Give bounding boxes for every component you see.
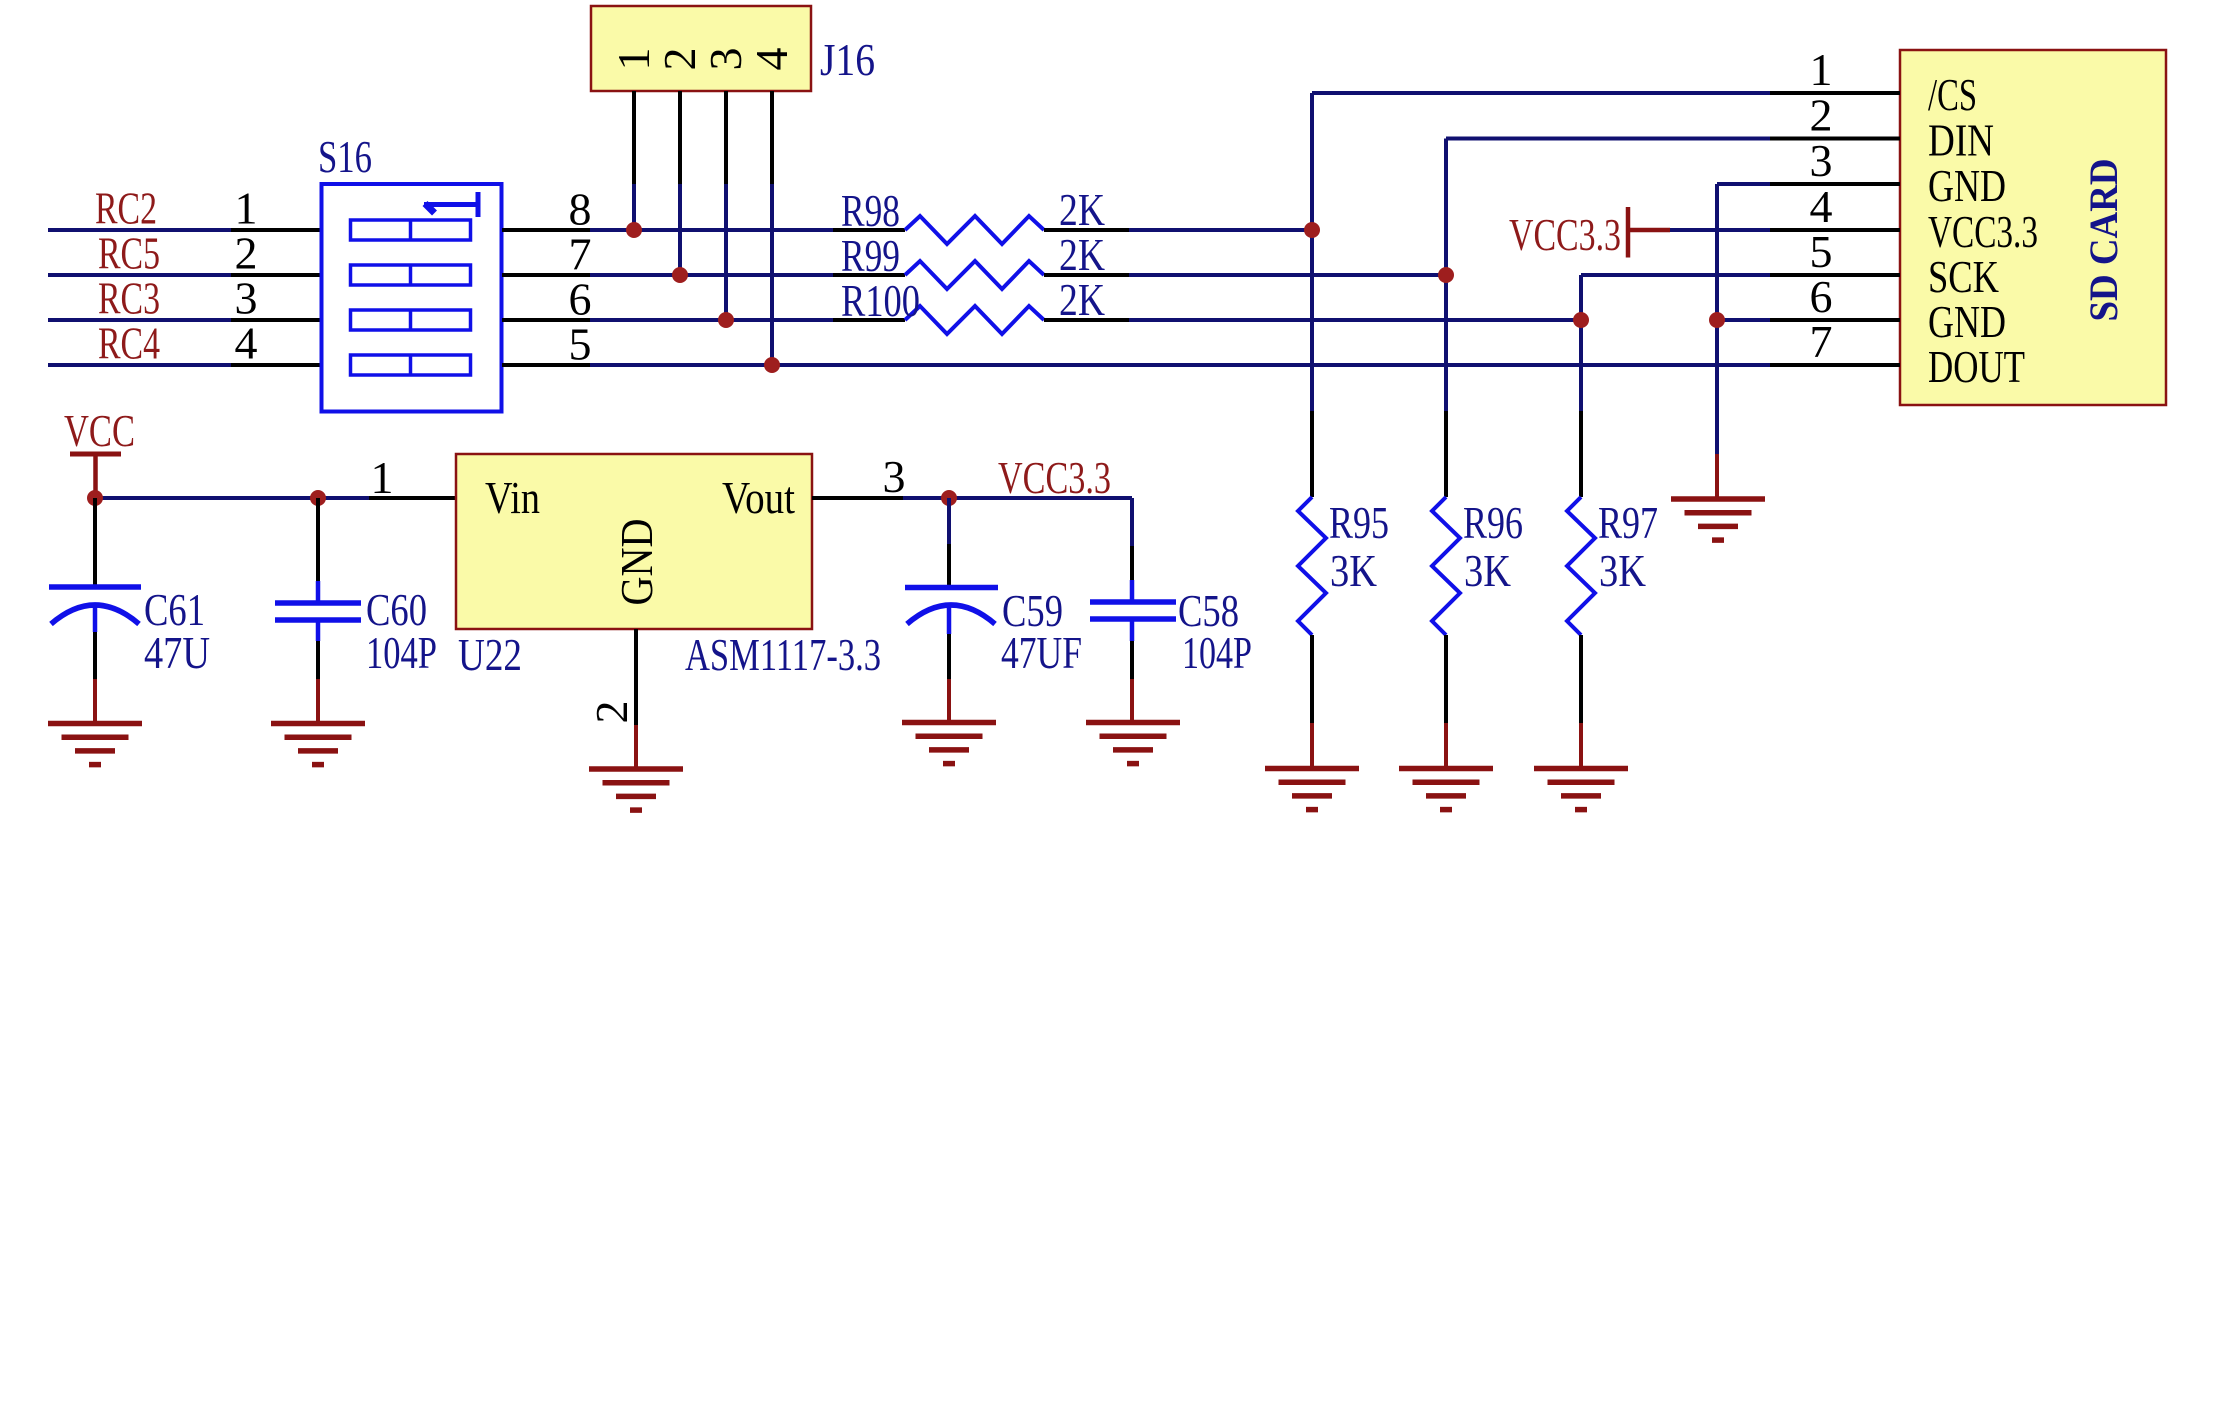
- J16 pin number 1: [608, 48, 659, 71]
- SD CARD pin 1 stub: [1770, 91, 1900, 95]
- resistor R99 zigzag: [905, 261, 1044, 289]
- ground symbol C61: [48, 724, 142, 765]
- S16 pin 3 stub: [231, 318, 321, 322]
- wire row4 DOUT: [590, 363, 833, 367]
- svg-text:SCK: SCK: [1928, 251, 1999, 302]
- resistor R100 designator: [841, 275, 920, 326]
- ground symbol SD card: [1671, 499, 1765, 540]
- S16 pin 7 stub: [502, 273, 590, 277]
- svg-text:R98: R98: [841, 185, 900, 236]
- U22 GND pin wire: [634, 629, 638, 725]
- svg-text:7: 7: [1810, 316, 1833, 367]
- S16 pin 2 stub: [231, 273, 321, 277]
- SD CARD pin name /CS: [1928, 69, 1977, 120]
- net label RC3: [98, 273, 160, 324]
- SD CARD pin name VCC3.3: [1928, 206, 2038, 257]
- svg-text:1: 1: [235, 183, 258, 234]
- svg-text:RC3: RC3: [98, 273, 160, 324]
- S16 pin 1 stub: [231, 228, 321, 232]
- svg-text:2: 2: [235, 228, 258, 279]
- resistor R96 ground wire: [1444, 723, 1448, 768]
- wire row1 S16 to R98: [590, 228, 833, 232]
- wire GND pin3 horizontal: [1717, 182, 1770, 186]
- junction J16 pin 2 to row 2: [672, 267, 688, 283]
- resistor R97 bottom lead: [1579, 635, 1583, 723]
- resistor R98 designator: [841, 185, 900, 236]
- svg-text:2: 2: [654, 48, 705, 71]
- junction /CS row1: [1304, 222, 1320, 238]
- wire net RC4 left segment: [48, 363, 231, 367]
- SD CARD pin number 3: [1810, 135, 1833, 186]
- SD CARD pin name SCK: [1928, 251, 1999, 302]
- S16 pin number 5: [569, 319, 592, 370]
- SD CARD pin number 2: [1810, 90, 1833, 141]
- J16 pin 1 wire navy: [632, 184, 636, 230]
- SD CARD pin number 4: [1810, 181, 1833, 232]
- wire VCC3.3 to pin4: [1670, 228, 1770, 232]
- svg-text:R100: R100: [841, 275, 920, 326]
- junction VCC C61: [87, 490, 103, 506]
- J16 pin 3 wire black: [724, 91, 728, 184]
- SD CARD body: [1900, 50, 2166, 405]
- svg-text:RC4: RC4: [98, 318, 160, 369]
- J16 designator: [820, 34, 875, 85]
- net label RC4: [98, 318, 160, 369]
- svg-text:GND: GND: [611, 519, 662, 606]
- ground symbol R95: [1265, 769, 1359, 810]
- svg-text:3: 3: [883, 451, 906, 502]
- ground wire under SD card: [1715, 454, 1719, 499]
- ground symbol R96: [1399, 769, 1493, 810]
- wire SCK horizontal: [1581, 273, 1770, 277]
- S16 pin 6 stub: [502, 318, 590, 322]
- svg-text:104P: 104P: [1182, 627, 1252, 678]
- svg-text:R96: R96: [1463, 497, 1523, 548]
- resistor R95 bottom lead: [1310, 635, 1314, 723]
- net label RC2: [95, 183, 157, 234]
- svg-text:2K: 2K: [1059, 229, 1105, 280]
- capacitor C60 ground wire: [316, 679, 320, 723]
- capacitor C60 designator: [366, 584, 427, 635]
- SD CARD pin number 5: [1810, 226, 1833, 277]
- wire row1 R98 to junction: [1129, 228, 1312, 232]
- resistor R97 top lead: [1579, 411, 1583, 497]
- resistor R100 left lead: [833, 318, 905, 322]
- svg-text:VCC3.3: VCC3.3: [998, 452, 1111, 503]
- S16 pin number 4: [235, 318, 258, 369]
- resistor R95 zigzag: [1298, 497, 1326, 635]
- S16 pin 8 stub: [502, 228, 590, 232]
- wire Vout rail: [903, 496, 1132, 500]
- capacitor C58: [1090, 546, 1176, 679]
- resistor R98 value 2K: [1059, 184, 1105, 235]
- SD CARD pin 3 stub: [1770, 182, 1900, 186]
- power VCC bar: [70, 454, 121, 498]
- svg-text:4: 4: [1810, 181, 1833, 232]
- wire SCK vertical: [1579, 275, 1583, 411]
- capacitor C58 value 104P: [1182, 627, 1252, 678]
- SD CARD pin name GND: [1928, 160, 2006, 211]
- wire net RC3 left segment: [48, 318, 231, 322]
- capacitor C59 ground wire: [947, 679, 951, 722]
- ground symbol C60: [271, 724, 365, 765]
- S16 pin number 3: [235, 273, 258, 324]
- U22 GND ground wire: [634, 725, 638, 769]
- svg-text:8: 8: [569, 184, 592, 235]
- SD CARD title: [2081, 159, 2126, 322]
- resistor R97 designator: [1598, 497, 1658, 548]
- svg-text:R99: R99: [841, 230, 900, 281]
- J16 pin 4 wire black: [770, 91, 774, 184]
- svg-text:GND: GND: [1928, 160, 2006, 211]
- J16 pin 3 wire navy: [724, 184, 728, 320]
- power VCC3.3 label bottom: [998, 452, 1111, 503]
- J16 pin number 2: [654, 48, 705, 71]
- capacitor C61 ground wire: [93, 679, 97, 723]
- resistor R96 bottom lead: [1444, 635, 1448, 723]
- svg-text:47UF: 47UF: [1001, 627, 1082, 678]
- U22 designator: [458, 629, 522, 680]
- svg-text:3: 3: [1810, 135, 1833, 186]
- svg-text:U22: U22: [458, 629, 522, 680]
- junction J16 pin 3 to row 3: [718, 312, 734, 328]
- resistor R98 zigzag: [905, 216, 1044, 244]
- svg-text:3: 3: [235, 273, 258, 324]
- svg-text:Vin: Vin: [485, 472, 540, 523]
- U22 pin number 3: [883, 451, 906, 502]
- SD CARD pin number 1: [1810, 44, 1833, 95]
- resistor R96 zigzag: [1432, 497, 1460, 635]
- S16 pin number 2: [235, 228, 258, 279]
- U22 pin 3 stub: [812, 496, 903, 500]
- capacitor C61 designator: [144, 584, 205, 635]
- svg-text:2K: 2K: [1059, 184, 1105, 235]
- wire C58 drop: [1130, 498, 1134, 546]
- svg-text:R97: R97: [1598, 497, 1658, 548]
- junction GND row: [1709, 312, 1725, 328]
- resistor R97 ground wire: [1579, 723, 1583, 768]
- svg-text:5: 5: [569, 319, 592, 370]
- svg-text:2K: 2K: [1059, 274, 1105, 325]
- connector J16 body: [591, 6, 811, 91]
- U22 pin name GND: [611, 519, 662, 606]
- S16 pin number 1: [235, 183, 258, 234]
- J16 pin number 4: [746, 48, 797, 71]
- U22 pin number 2: [586, 701, 637, 724]
- svg-text:DOUT: DOUT: [1928, 341, 2025, 392]
- resistor R99 designator: [841, 230, 900, 281]
- svg-text:VCC3.3: VCC3.3: [1509, 209, 1621, 260]
- J16 pin 2 wire navy: [678, 184, 682, 275]
- svg-text:5: 5: [1810, 226, 1833, 277]
- resistor R100 value 2K: [1059, 274, 1105, 325]
- J16 pin number 3: [700, 48, 751, 71]
- svg-text:2: 2: [1810, 90, 1833, 141]
- resistor R95 value 3K: [1330, 545, 1377, 596]
- resistor R98 left lead: [833, 228, 905, 232]
- resistor R95 designator: [1329, 497, 1389, 548]
- svg-text:VCC3.3: VCC3.3: [1928, 206, 2038, 257]
- svg-text:S16: S16: [318, 131, 372, 182]
- J16 pin 1 wire black: [632, 91, 636, 184]
- capacitor C61 value 47U: [144, 627, 210, 678]
- S16 pin 4 stub: [231, 363, 321, 367]
- capacitor C61: [49, 498, 141, 679]
- svg-text:3K: 3K: [1464, 545, 1511, 596]
- capacitor C60: [275, 498, 361, 679]
- U22 part number: [685, 629, 881, 680]
- junction J16 pin 1 to row 1: [626, 222, 642, 238]
- U22 pin name Vout: [722, 472, 795, 523]
- svg-text:2: 2: [586, 701, 637, 724]
- regulator U22 body: [456, 454, 812, 629]
- resistor R99 right lead: [1044, 273, 1129, 277]
- wire GND pin6 link: [1717, 318, 1770, 322]
- svg-text:DIN: DIN: [1928, 115, 1994, 166]
- U22 pin name Vin: [485, 472, 540, 523]
- resistor R99 value 2K: [1059, 229, 1105, 280]
- capacitor C60 value 104P: [366, 627, 437, 678]
- SD CARD pin name GND: [1928, 296, 2006, 347]
- svg-text:SD CARD: SD CARD: [2081, 159, 2126, 322]
- SD CARD pin 5 stub: [1770, 273, 1900, 277]
- SD CARD pin number 7: [1810, 316, 1833, 367]
- junction DIN row2: [1438, 267, 1454, 283]
- S16 pin 5 stub: [502, 363, 590, 367]
- wire /CS vertical: [1310, 93, 1314, 411]
- resistor R100 right lead: [1044, 318, 1129, 322]
- svg-text:1: 1: [1810, 44, 1833, 95]
- junction Vout C59: [941, 490, 957, 506]
- svg-text:RC5: RC5: [98, 228, 160, 279]
- power VCC label: [64, 405, 135, 456]
- net label RC5: [98, 228, 160, 279]
- power VCC3.3 label right: [1509, 209, 1621, 260]
- SD CARD pin name DOUT: [1928, 341, 2025, 392]
- svg-text:VCC: VCC: [64, 405, 135, 456]
- svg-text:RC2: RC2: [95, 183, 157, 234]
- svg-text:3K: 3K: [1599, 545, 1646, 596]
- capacitor C58 designator: [1178, 585, 1239, 636]
- svg-text:R95: R95: [1329, 497, 1389, 548]
- wire row2 R99 to junction: [1129, 273, 1446, 277]
- svg-text:1: 1: [371, 452, 394, 503]
- resistor R96 value 3K: [1464, 545, 1511, 596]
- SD CARD pin name DIN: [1928, 115, 1994, 166]
- svg-text:3: 3: [700, 48, 751, 71]
- SD CARD pin 2 stub: [1770, 137, 1900, 141]
- SD CARD pin 4 stub: [1770, 228, 1900, 232]
- wire net RC5 left segment: [48, 273, 231, 277]
- SD CARD pin 7 stub: [1770, 363, 1900, 367]
- ground symbol C58: [1086, 723, 1180, 764]
- resistor R96 top lead: [1444, 411, 1448, 497]
- wire row4 DOUT right: [833, 363, 1770, 367]
- svg-text:6: 6: [1810, 271, 1833, 322]
- U22 pin number 1: [371, 452, 394, 503]
- SD CARD pin number 6: [1810, 271, 1833, 322]
- capacitor C59: [905, 498, 998, 679]
- resistor R100 zigzag: [905, 306, 1044, 334]
- svg-text:J16: J16: [820, 34, 875, 85]
- svg-text:GND: GND: [1928, 296, 2006, 347]
- switch S16 designator: [318, 131, 372, 182]
- junction SCK row3: [1573, 312, 1589, 328]
- J16 pin 2 wire black: [678, 91, 682, 184]
- svg-text:47U: 47U: [144, 627, 210, 678]
- wire /CS horizontal: [1312, 91, 1770, 95]
- resistor R97 value 3K: [1599, 545, 1646, 596]
- svg-text:4: 4: [235, 318, 258, 369]
- switch S16 body: [322, 184, 502, 412]
- resistor R96 designator: [1463, 497, 1523, 548]
- power VCC3.3 bar: [1628, 207, 1670, 258]
- resistor R99 left lead: [833, 273, 905, 277]
- U22 pin 1 stub: [369, 496, 456, 500]
- svg-text:Vout: Vout: [722, 472, 795, 523]
- capacitor C59 value 47UF: [1001, 627, 1082, 678]
- capacitor C58 ground wire: [1130, 679, 1134, 722]
- junction J16 pin 4 to row 4: [764, 357, 780, 373]
- wire GND vertical: [1715, 184, 1719, 454]
- ground symbol R97: [1534, 769, 1628, 810]
- SD CARD pin 6 stub: [1770, 318, 1900, 322]
- svg-text:ASM1117-3.3: ASM1117-3.3: [685, 629, 881, 680]
- wire row2 S16 to R99: [590, 273, 833, 277]
- svg-text:7: 7: [569, 229, 592, 280]
- wire row3 S16 to R100: [590, 318, 833, 322]
- svg-text:6: 6: [569, 274, 592, 325]
- wire DIN vertical: [1444, 139, 1448, 412]
- wire VCC rail: [95, 496, 369, 500]
- J16 pin 4 wire navy: [770, 184, 774, 365]
- svg-text:1: 1: [608, 48, 659, 71]
- svg-text:/CS: /CS: [1928, 69, 1977, 120]
- resistor R97 zigzag: [1567, 497, 1595, 635]
- resistor R95 top lead: [1310, 411, 1314, 497]
- wire net RC2 left segment: [48, 228, 231, 232]
- S16 pin number 6: [569, 274, 592, 325]
- wire DIN horizontal: [1446, 137, 1770, 141]
- capacitor C59 designator: [1002, 585, 1063, 636]
- resistor R95 ground wire: [1310, 723, 1314, 768]
- resistor R98 right lead: [1044, 228, 1129, 232]
- ground symbol U22: [589, 769, 683, 810]
- junction VCC C60: [310, 490, 326, 506]
- wire row3 R100 to junction: [1129, 318, 1581, 322]
- svg-text:104P: 104P: [366, 627, 437, 678]
- ground symbol C59: [902, 723, 996, 764]
- S16 pin number 8: [569, 184, 592, 235]
- svg-text:4: 4: [746, 48, 797, 71]
- svg-text:3K: 3K: [1330, 545, 1377, 596]
- S16 pin number 7: [569, 229, 592, 280]
